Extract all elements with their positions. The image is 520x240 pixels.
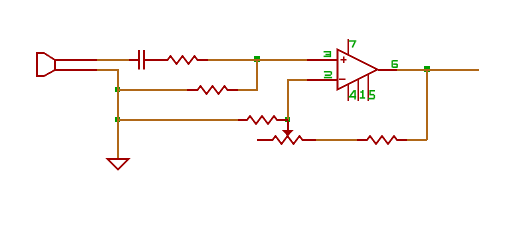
pin number 1 [360,90,365,99]
resistor R1 [145,56,208,64]
wire R2 to corner up to J1 [238,60,257,91]
junction J3 [115,117,120,122]
pin number 7 [349,40,356,47]
wire J2 to R2 [118,89,187,91]
pin 2 lead [307,79,337,81]
wire J5 down to feedback row [407,69,427,140]
pin number 4 [349,90,357,100]
pin 3 lead [307,59,337,61]
potentiometer wiper arrow [287,121,289,130]
resistor R3 [238,116,288,124]
resistor R5 [357,136,407,144]
wire pot to R5 [316,139,357,141]
junction J1 [254,56,260,62]
wire op-amp pin 2 to pot wiper column [288,79,307,120]
pin number 3 [324,51,332,57]
ground [108,159,129,170]
pin 6 output lead [378,69,397,71]
minus symbol [339,79,345,81]
pin 4 lead [347,84,349,101]
pin 5 lead [367,74,369,101]
pin number 5 [368,90,375,99]
pin 7 lead [347,39,349,55]
op-amp U1 [307,39,397,101]
resistor R2 [187,86,238,94]
wire mic top to capacitor [97,59,129,61]
junction J5 [424,66,430,72]
pin number 2 [324,71,332,78]
pin number 6 [392,60,398,68]
junction J4 [285,117,290,122]
plus symbol [341,57,347,64]
pin 1 lead [357,79,359,101]
microphone MK1 [37,53,97,76]
wire R1 to J1 to op-amp pin 3 [208,59,307,61]
capacitor C1 [129,50,167,70]
junction J2 [115,87,120,92]
wire J3 to R3 [118,119,238,121]
wire mic bottom down left column to ground [97,69,118,159]
potentiometer R4 [257,136,316,144]
wire output pin 6 to J5 and stub [397,69,479,71]
